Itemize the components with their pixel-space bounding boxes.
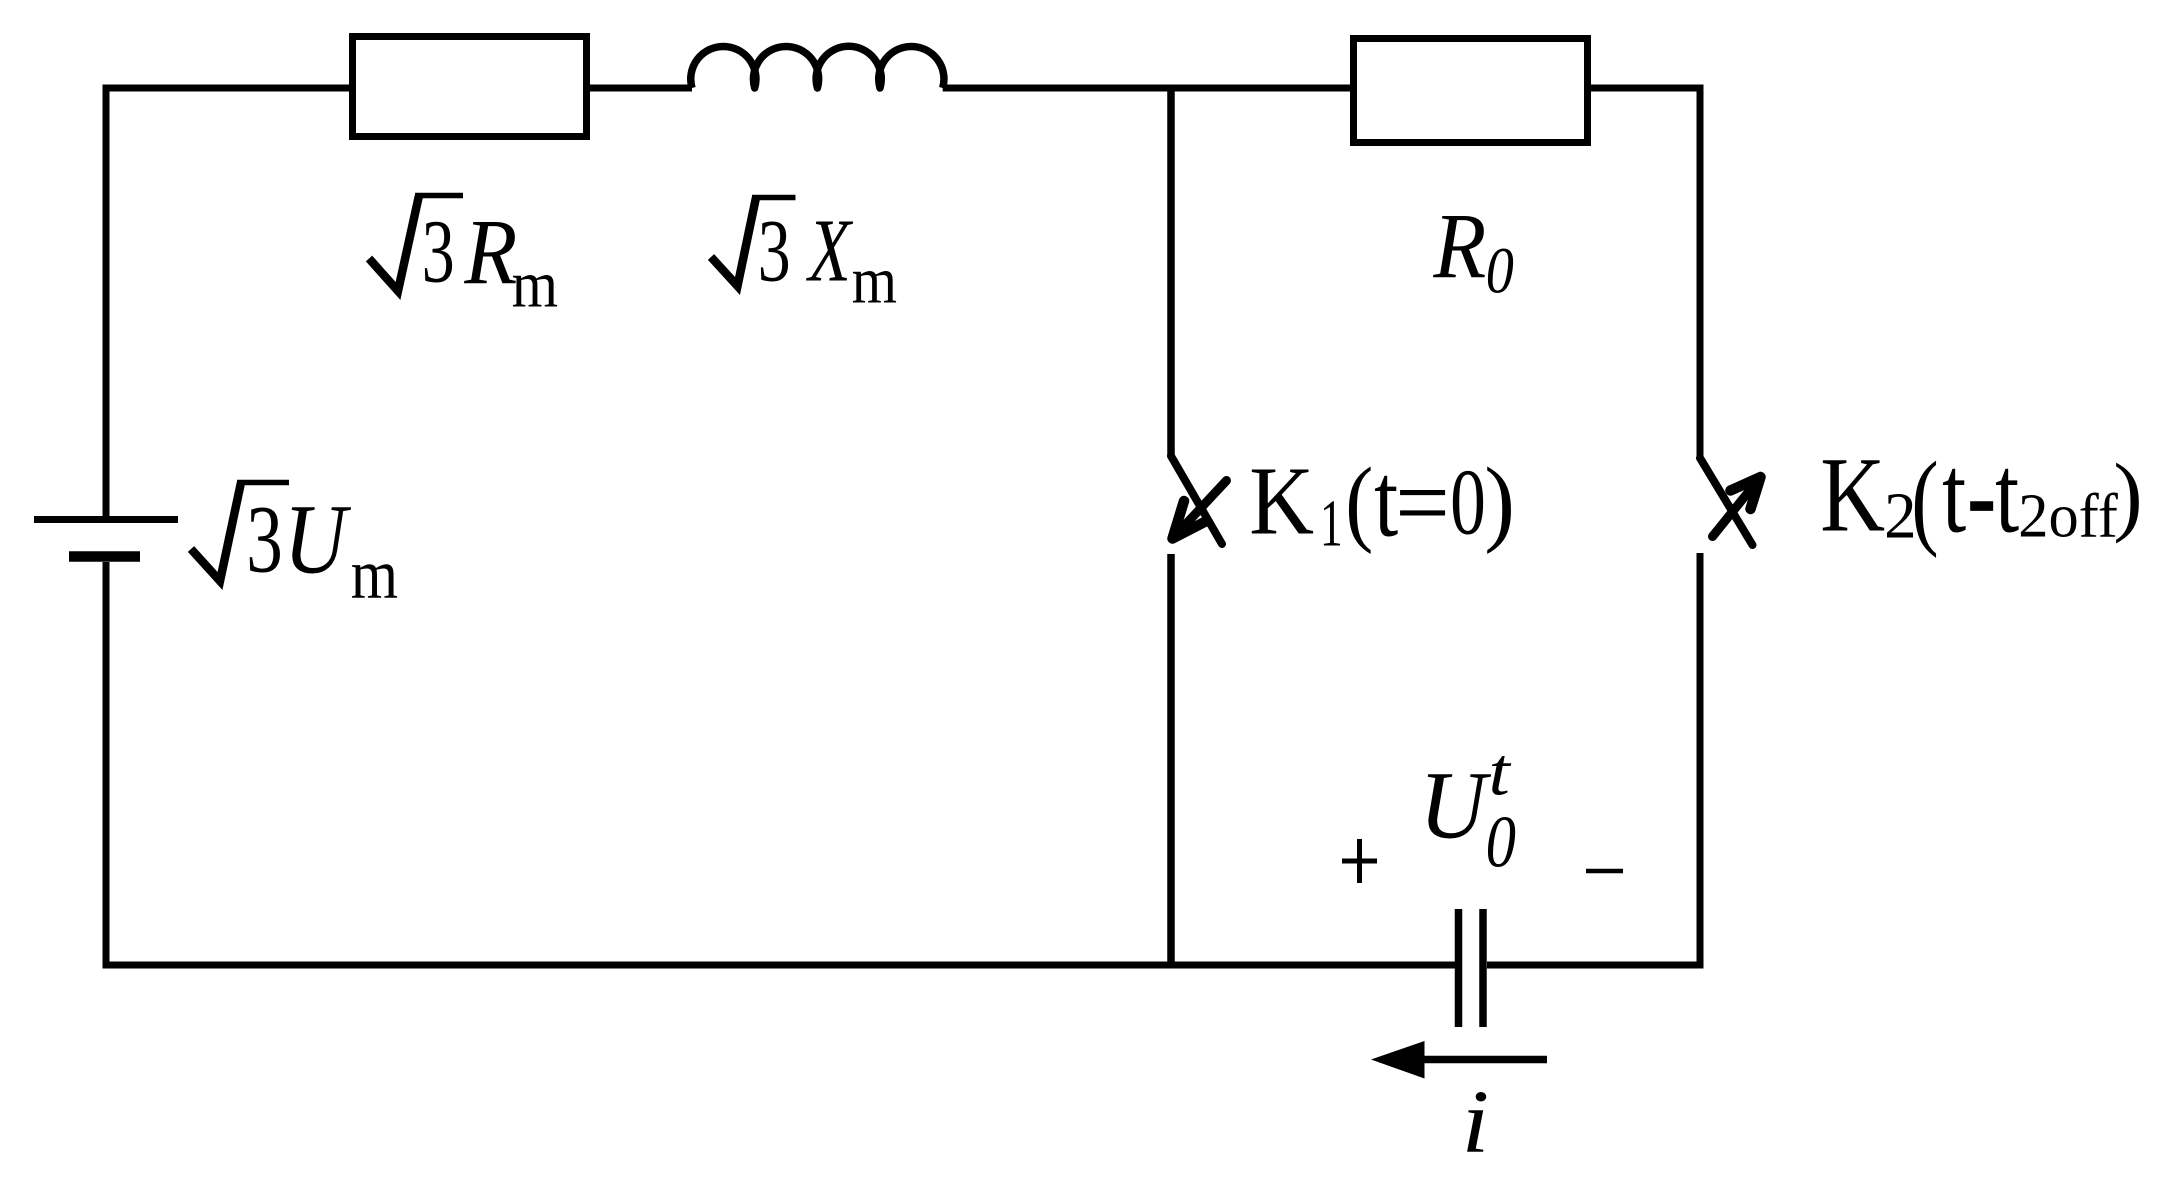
svg-text:U: U [1419, 753, 1492, 859]
svg-text:=: = [1395, 446, 1450, 559]
svg-text:2off: 2off [2018, 482, 2118, 551]
svg-text:X: X [806, 201, 854, 301]
svg-text:m: m [852, 243, 897, 318]
svg-text:R: R [1432, 196, 1486, 298]
svg-text:0: 0 [1486, 236, 1514, 308]
svg-text:0: 0 [1486, 800, 1516, 883]
svg-text:R: R [463, 202, 517, 304]
svg-text:-: - [1967, 422, 1996, 564]
svg-text:t: t [1995, 432, 2019, 556]
svg-text:t: t [1489, 735, 1512, 810]
svg-text:K: K [1249, 447, 1314, 555]
svg-text:t: t [1942, 432, 1966, 556]
svg-text:U: U [284, 485, 352, 595]
svg-text:K: K [1820, 436, 1885, 554]
svg-text:3: 3 [246, 487, 283, 593]
svg-text:3: 3 [422, 203, 455, 302]
svg-text:): ) [2113, 446, 2142, 544]
svg-text:(: ( [1345, 447, 1373, 554]
svg-text:3: 3 [758, 201, 791, 300]
svg-text:i: i [1462, 1071, 1490, 1171]
svg-text:1: 1 [1320, 487, 1343, 560]
svg-text:m: m [512, 247, 558, 321]
svg-text:(: ( [1911, 440, 1938, 559]
svg-text:0: 0 [1450, 451, 1486, 555]
svg-text:): ) [1484, 449, 1515, 555]
svg-text:m: m [351, 535, 398, 613]
